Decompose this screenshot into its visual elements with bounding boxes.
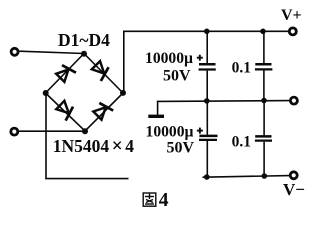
ground [148, 101, 164, 118]
wire [123, 30, 289, 32]
svg-text:10000µ: 10000µ [146, 124, 194, 141]
wire [203, 176, 290, 178]
node [261, 98, 267, 104]
wire [45, 178, 128, 180]
node [204, 98, 210, 104]
capacitor C4 0.1 [255, 101, 272, 177]
capacitor C3 10000u 50V [197, 101, 218, 177]
terminal V- [290, 172, 297, 179]
capacitor C1 10000u 50V [197, 31, 216, 101]
svg-text:1N5404×4: 1N5404×4 [53, 136, 135, 157]
svg-text:V+: V+ [281, 7, 302, 24]
terminal 0V [290, 97, 297, 104]
node [204, 174, 210, 180]
node bridge bottom [82, 128, 88, 134]
node [260, 29, 266, 35]
wire [19, 51, 84, 53]
svg-text:D1~D4: D1~D4 [58, 30, 110, 50]
node [204, 29, 210, 35]
terminal V+ [289, 28, 296, 35]
wire [123, 31, 125, 92]
diode D2 [91, 60, 112, 81]
svg-text:V−: V− [283, 180, 305, 199]
wire [19, 130, 85, 132]
wire [46, 54, 85, 94]
svg-text:0.1: 0.1 [232, 133, 251, 150]
node [262, 173, 268, 179]
node bridge left [43, 90, 49, 96]
terminal AC input bottom [11, 128, 18, 135]
wire [84, 54, 123, 94]
wire [158, 100, 290, 103]
wire [46, 93, 86, 131]
diode D4 [92, 100, 113, 121]
svg-text:10000µ: 10000µ [145, 50, 193, 67]
capacitor C2 0.1 [255, 31, 273, 100]
terminal AC input top [11, 48, 18, 55]
svg-text:0.1: 0.1 [232, 60, 251, 77]
diode D3 [55, 100, 76, 121]
svg-text:4: 4 [159, 190, 169, 211]
node bridge top [81, 51, 87, 57]
svg-text:50V: 50V [166, 140, 194, 157]
wire [85, 93, 123, 131]
node bridge right [120, 90, 126, 96]
label figure caption tu4 [143, 193, 156, 206]
svg-text:50V: 50V [163, 68, 191, 85]
diode D1 [55, 62, 76, 83]
wire [45, 94, 47, 179]
